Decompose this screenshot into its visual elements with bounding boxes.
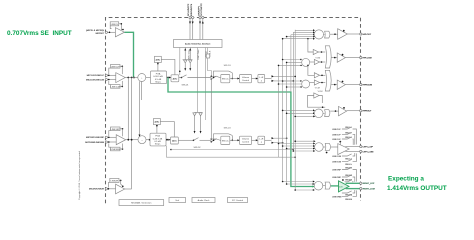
svg-text:Volume: Volume <box>242 139 250 141</box>
green wire PGA_L bypass down and across <box>168 78 315 188</box>
wires into HPRCOM mixer <box>278 80 302 88</box>
svg-text:SW-D2: SW-D2 <box>193 147 201 149</box>
svg-text:MIC2R/LINE2R: MIC2R/LINE2R <box>89 189 104 191</box>
wires into RIGHT_LO mixer <box>282 181 315 192</box>
svg-text:SW-L5: SW-L5 <box>345 164 352 166</box>
DAC_L arrows <box>272 75 275 82</box>
op-amp HPLOUT driver <box>338 29 360 40</box>
gain box LINE1LM <box>108 79 123 89</box>
svg-text:Volume: Volume <box>242 77 250 79</box>
gain box LINE2R <box>108 178 124 189</box>
svg-text:0.5 dB: 0.5 dB <box>154 141 161 143</box>
wire interface stub left <box>179 48 181 76</box>
ADC box left <box>171 75 182 82</box>
cross switch right row <box>211 108 221 143</box>
svg-text:LINE2RP: LINE2RP <box>332 177 342 179</box>
svg-text:HPRCOM: HPRCOM <box>363 85 372 87</box>
svg-text:MIC1LP/LINE1LP: MIC1LP/LINE1LP <box>87 75 105 77</box>
svg-text:LEFT_LOP: LEFT_LOP <box>363 146 374 148</box>
VCM buffer triangle mid <box>308 91 326 108</box>
annotation output label <box>387 176 447 192</box>
audio serial bus interface U2 <box>174 40 223 48</box>
PGA box left <box>151 71 172 84</box>
mux HPROUT <box>325 110 339 117</box>
gain box LINE1RM <box>108 141 123 151</box>
DAC_R arrows <box>272 137 288 144</box>
switch SW-D2 <box>193 138 212 150</box>
svg-text:Copyright © 2016, Texas Instru: Copyright © 2016, Texas Instruments Inco… <box>78 150 81 200</box>
bus vertical line 5 <box>292 32 294 151</box>
wire input cross verticals <box>128 78 131 189</box>
wire DAC_L1 to bus <box>274 76 296 82</box>
op-amp HPLCOM driver <box>337 53 360 62</box>
mixer HPLCOM <box>302 58 315 66</box>
external cap symbol right ADC <box>193 113 203 134</box>
bottom box audio clock <box>192 198 215 203</box>
svg-text:LINE2LM: LINE2LM <box>332 162 341 164</box>
op-amp MIC2R input buffer <box>116 184 132 194</box>
mixer HPROUT <box>314 109 324 118</box>
PGA box right <box>150 133 171 146</box>
pin MIC1LP/LINE1LP <box>87 74 116 77</box>
volume control box left <box>240 75 258 83</box>
svg-text:Steps: Steps <box>155 81 161 84</box>
wires into HPROUT mixer <box>282 109 315 117</box>
wire LINE2R bypass across <box>170 149 294 151</box>
pin HPROUT <box>360 110 372 113</box>
effects box left <box>221 75 240 83</box>
ADC box right <box>171 137 194 144</box>
switch row SW-R4 <box>342 190 355 196</box>
serial bus pin SCLK <box>188 3 191 39</box>
svg-text:LINE2RM: LINE2RM <box>332 196 342 198</box>
svg-text:ADC: ADC <box>172 140 177 143</box>
svg-text:PGA: PGA <box>156 72 161 75</box>
volume control box right <box>240 136 258 144</box>
svg-text:MIC1RM/LINE1RM: MIC1RM/LINE1RM <box>85 142 104 144</box>
mixer HPLOUT <box>314 30 324 39</box>
svg-text:DIN/MFP1: DIN/MFP1 <box>198 5 200 16</box>
svg-text:SW-D1: SW-D1 <box>181 84 189 86</box>
svg-text:SCLK/MFP3: SCLK/MFP3 <box>188 3 190 16</box>
svg-text:LINE1LP: LINE1LP <box>332 139 341 141</box>
mux HPRCOM <box>325 70 337 91</box>
mixer right ADC <box>138 136 151 144</box>
svg-text:VCM: VCM <box>315 57 320 59</box>
gain box LINE1RP <box>108 127 123 138</box>
pin HPLCOM <box>360 57 372 60</box>
svg-text:DAC Data: DAC Data <box>197 49 200 60</box>
svg-text:Effects: Effects <box>222 78 230 81</box>
node PGA_R output junction <box>166 139 296 158</box>
svg-text:VCM: VCM <box>315 88 320 90</box>
svg-text:0-59.5 dB: 0-59.5 dB <box>153 76 163 78</box>
pin MIC2R/LINE2R <box>89 188 116 191</box>
op-amp MIC3 input buffer <box>115 28 124 37</box>
svg-text:LINE1LP: LINE1LP <box>111 66 120 68</box>
svg-text:0-59.5 dB: 0-59.5 dB <box>153 138 163 140</box>
svg-text:LINE1LM: LINE1LM <box>332 156 341 158</box>
switch row SW-R3b <box>345 180 354 183</box>
mux LEFT_LO <box>325 143 338 150</box>
serial bus pin DOUT <box>201 3 204 40</box>
wire mixer to mixer verticals <box>139 81 142 137</box>
chip dashed border <box>106 18 361 204</box>
svg-text:Steps: Steps <box>155 143 161 146</box>
svg-text:LEFT_LOM: LEFT_LOM <box>363 151 374 153</box>
svg-text:LINE2R: LINE2R <box>111 180 119 182</box>
svg-text:LINE1LM: LINE1LM <box>111 86 120 88</box>
svg-text:RIGHT_LOM: RIGHT_LOM <box>363 189 375 191</box>
bottom box MICBIAS reference <box>119 200 164 206</box>
svg-text:MICDET: MICDET <box>96 33 105 35</box>
op-amp MIC1L input buffer <box>116 73 138 83</box>
svg-text:ADC: ADC <box>173 77 178 80</box>
effects box right <box>221 136 240 144</box>
svg-text:Vref: Vref <box>175 199 179 202</box>
cross switch left row <box>211 76 221 109</box>
node PGA output junction <box>167 77 169 79</box>
switch SW-D4 effects bypass right <box>213 128 233 141</box>
svg-text:MIC1RP/LINE1RP: MIC1RP/LINE1RP <box>86 137 105 139</box>
svg-text:I2C Control: I2C Control <box>232 199 244 202</box>
pin RIGHT_LOP <box>360 182 375 185</box>
mixer LEFT_LO <box>315 143 326 152</box>
svg-text:1.414Vrms OUTPUT: 1.414Vrms OUTPUT <box>387 185 447 192</box>
copyright vertical text <box>78 150 81 200</box>
switch SW-D1 <box>181 75 212 87</box>
svg-text:Effects: Effects <box>222 139 230 142</box>
switch row LINE2LP SW-L1 <box>332 127 357 145</box>
pin LEFT_LOP <box>360 145 374 148</box>
L+R/2 box right <box>258 136 272 144</box>
svg-text:AGC: AGC <box>155 121 160 124</box>
pin MIC1RM/LINE1RM <box>85 141 116 144</box>
svg-text:0.5 dB: 0.5 dB <box>155 79 162 81</box>
pin RIGHT_LOM <box>360 188 375 191</box>
wire interface to cross switch <box>206 48 211 77</box>
wires into LEFT_LO mixer <box>278 140 316 152</box>
gain box LINE1LP <box>108 65 123 77</box>
svg-text:LINE1RM: LINE1RM <box>110 149 120 151</box>
svg-text:HPLCOM: HPLCOM <box>363 58 372 60</box>
pin HPRCOM <box>360 84 372 87</box>
mux HPLOUT <box>325 31 338 38</box>
svg-text:LINE2L: LINE2L <box>111 24 119 26</box>
svg-text:Audio Serial Bus Interface: Audio Serial Bus Interface <box>185 43 211 46</box>
bottom box Vref <box>169 198 186 203</box>
svg-text:RIGHT_LOP: RIGHT_LOP <box>363 183 375 185</box>
mixer RIGHT_LO <box>314 181 325 190</box>
switch row LINE2RM SW-R5 <box>332 190 357 200</box>
switch SW-D3 effects bypass left <box>213 65 233 79</box>
svg-text:Audio Clock: Audio Clock <box>198 199 211 202</box>
bus vertical line 6 <box>294 30 296 190</box>
svg-text:0.707Vrms SE INPUT: 0.707Vrms SE INPUT <box>7 30 72 37</box>
svg-text:LINE2LP: LINE2LP <box>332 129 341 131</box>
pin MIC1LM/LINE1LM <box>86 78 116 81</box>
bottom box control interface <box>228 198 248 203</box>
op-amp RIGHT_LO driver highlighted <box>339 179 360 192</box>
wires into HPLOUT mixer <box>282 29 315 39</box>
bus vertical line 2 <box>282 39 284 182</box>
mixer HPRCOM <box>302 80 315 88</box>
svg-text:Control: Control <box>242 141 250 144</box>
bus vertical line 3 <box>286 62 288 184</box>
serial bus pin DIN <box>198 5 201 39</box>
wire interface DOUT bus down <box>204 48 206 121</box>
wires into HPLCOM mixer <box>278 59 302 66</box>
bus vertical line 1 <box>278 65 280 157</box>
op-amp HPRCOM driver <box>337 80 360 89</box>
svg-text:SW-D3: SW-D3 <box>224 65 232 67</box>
switch row LINE2LM SW-L5 <box>332 153 357 166</box>
svg-text:SW-R5: SW-R5 <box>345 199 353 201</box>
node amp out to PGA wire junction <box>133 77 135 79</box>
mixer left ADC <box>138 74 153 82</box>
VCM buffer triangles HPLCOM <box>307 38 325 65</box>
pin HPLOUT <box>360 33 372 36</box>
switch row SW-R1 LINE2RP <box>332 167 357 181</box>
switch row LINE2LP SW-L2 <box>332 132 355 145</box>
op-amp HPROUT driver <box>339 106 360 115</box>
svg-text:HPROUT: HPROUT <box>363 111 372 113</box>
svg-text:DOUT/MFP2: DOUT/MFP2 <box>201 3 203 16</box>
external cap symbol left ADC <box>183 48 193 71</box>
bus vertical line 4 <box>290 35 292 92</box>
gain box LINE2L <box>110 22 124 31</box>
svg-text:LINE1RP: LINE1RP <box>111 129 121 131</box>
op-amp MIC1R input buffer <box>116 135 138 145</box>
AGC box right <box>154 119 175 138</box>
svg-text:SW-D4: SW-D4 <box>224 128 232 130</box>
svg-text:MIC1LM/LINE1LM: MIC1LM/LINE1LM <box>86 79 104 81</box>
pin LEFT_LOM <box>360 150 374 153</box>
AGC box left <box>155 56 175 75</box>
switch row SW-L3 <box>332 137 353 145</box>
L+R/2 box left <box>258 75 272 83</box>
pin MIC1RP/LINE1RP <box>86 136 116 139</box>
switch row SW-L4 <box>326 152 355 161</box>
svg-text:PGA: PGA <box>155 135 160 138</box>
op-amp LEFT_LO driver <box>338 141 360 155</box>
svg-text:LINE2LP: LINE2LP <box>332 134 341 136</box>
svg-text:LINE2RP: LINE2RP <box>332 169 342 171</box>
mux RIGHT_LO <box>325 182 338 189</box>
svg-text:MICBIAS / Detection: MICBIAS / Detection <box>131 202 152 205</box>
annotation input label <box>7 30 72 37</box>
svg-text:(MIC3L & MIC3R)/: (MIC3L & MIC3R)/ <box>86 30 104 32</box>
svg-text:L+R: L+R <box>259 77 263 79</box>
svg-text:HPLOUT: HPLOUT <box>363 34 372 36</box>
svg-text:L+R: L+R <box>259 139 263 141</box>
wire interface DIN bus down <box>197 48 199 113</box>
rotated data labels under interface <box>187 49 211 60</box>
svg-text:AGC: AGC <box>156 58 161 61</box>
svg-text:VCM: VCM <box>318 91 323 93</box>
svg-text:Control: Control <box>242 79 250 82</box>
VCM buffer triangles HPRCOM <box>307 65 325 90</box>
svg-text:MISO/MFP4: MISO/MFP4 <box>191 3 193 16</box>
serial bus pin MISO <box>191 3 194 39</box>
switch row SW-R2 LINE2RP <box>332 175 355 182</box>
pin MIC3L/MIC3R input <box>86 30 115 35</box>
mux HPLCOM <box>325 46 337 68</box>
svg-text:Expecting a: Expecting a <box>388 176 424 183</box>
green wire input bypass path <box>125 32 134 77</box>
